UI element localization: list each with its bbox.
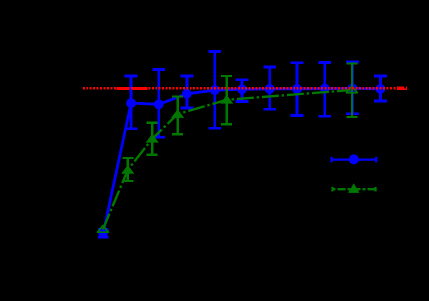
green error bar G5 (221, 76, 232, 124)
blue data line (103, 88, 380, 233)
green triangle marker G2 (121, 165, 134, 174)
red solid segment B (397, 86, 407, 90)
blue circle marker P5 (210, 85, 220, 95)
green triangle marker G5 (220, 95, 233, 104)
blue circle marker P4 (182, 89, 192, 99)
blue circle marker P8 (292, 84, 302, 94)
green error bar G4 (172, 96, 183, 134)
blue circle marker P11 (376, 84, 386, 94)
blue error bar P7 (263, 67, 276, 109)
blue circle marker P1 (98, 229, 107, 238)
blue error bar P8 (291, 63, 304, 116)
blue error bar P6 (236, 80, 249, 102)
green error bar G2 (122, 158, 133, 181)
green triangle marker G4 (171, 109, 184, 118)
red solid segment A (117, 87, 148, 90)
blue circle marker P3 (154, 99, 164, 109)
blue error bar P9 (318, 63, 331, 117)
black notch in red segment B (404, 86, 406, 88)
blue circle marker P2 (126, 98, 136, 108)
green triangle marker G6 (346, 86, 357, 93)
red dotted reference line (83, 87, 406, 90)
legend green entry: dash-dot line with caps and triangle (333, 187, 376, 192)
green data line (103, 90, 351, 229)
green error bar G6 (346, 64, 357, 117)
green error bar G3 (147, 123, 158, 155)
blue error bar P11 (374, 76, 387, 101)
green triangle marker G1 (97, 226, 108, 233)
blue error bar P1 (98, 229, 109, 237)
legend blue entry: line with caps and circle (332, 157, 377, 163)
blue error bar P10 (346, 62, 359, 114)
blue circle marker P10 (348, 84, 358, 94)
blue circle marker P9 (320, 84, 330, 94)
blue error bar P4 (181, 76, 194, 108)
blue circle marker P7 (265, 84, 275, 94)
blue error bar P5 (208, 52, 221, 129)
blue circle marker P6 (237, 84, 247, 94)
blue error bar P3 (152, 70, 165, 138)
green triangle marker G3 (146, 134, 159, 143)
blue error bar P2 (125, 76, 138, 129)
